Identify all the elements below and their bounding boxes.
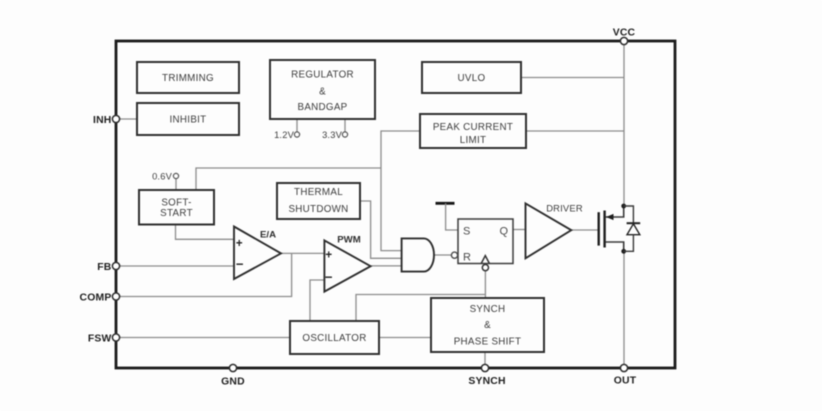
svg-text:1.2V: 1.2V (274, 130, 295, 140)
svg-text:+: + (325, 249, 332, 261)
wire UVLO to VCC rail (521, 77, 624, 79)
wire oscillator top to PWM - input (310, 280, 324, 321)
R input bubble (451, 252, 457, 258)
wire peak-current-limit right to VCC rail (526, 130, 624, 132)
op-amp E/A error amplifier (234, 227, 281, 280)
svg-text:−: − (325, 270, 333, 285)
svg-text:FSW: FSW (88, 333, 112, 344)
svg-text:R: R (463, 252, 471, 264)
soft-start block (139, 190, 214, 225)
node FB pin (97, 262, 119, 273)
wire FSW pin to oscillator (116, 337, 290, 339)
wire PWM output to AND gate input 3 (371, 265, 402, 267)
transistor Q1 power MOSFET (599, 204, 626, 254)
node 0.6V reference (152, 172, 179, 182)
node drain dot (621, 204, 626, 209)
wire soft-start bottom to E/A + input (176, 225, 235, 240)
SR latch U1 (451, 219, 513, 271)
wire peak-current-limit left to AND gate input 1 (381, 131, 420, 251)
wire thermal-shutdown right to AND gate input 2 (360, 201, 402, 258)
svg-text:SYNCH: SYNCH (468, 376, 505, 387)
svg-text:THERMAL: THERMAL (294, 187, 343, 198)
svg-text:START: START (160, 208, 193, 219)
wire 1.2V stub (296, 119, 298, 132)
node 1.2V output (274, 130, 300, 140)
svg-text:E/A: E/A (260, 230, 276, 241)
node OUT pin (614, 364, 637, 386)
wire Q output to driver (513, 229, 526, 231)
node FSW pin (88, 333, 120, 344)
svg-text:DRIVER: DRIVER (546, 202, 583, 213)
svg-text:SYNCH: SYNCH (470, 304, 506, 315)
node COMP pin (80, 292, 120, 303)
IC boundary box (116, 41, 675, 368)
svg-text:&: & (484, 320, 491, 331)
diode D1 body diode (624, 206, 641, 251)
wire driver output to MOSFET gate (571, 229, 598, 231)
driver buffer (526, 202, 583, 258)
svg-text:UVLO: UVLO (458, 73, 486, 84)
svg-text:OUT: OUT (614, 376, 637, 387)
UVLO block (422, 62, 521, 93)
trimming block (137, 62, 239, 93)
wire INH pin to INHIBIT (116, 118, 137, 120)
wire 3.3V stub (344, 119, 346, 132)
wire OUT vertical (623, 251, 625, 364)
oscillator block (290, 321, 379, 354)
svg-text:LIMIT: LIMIT (460, 135, 487, 146)
svg-text:&: & (319, 87, 326, 98)
wire COMP pin to E/A output node (116, 253, 292, 296)
node SYNCH pin (468, 364, 505, 387)
inhibit block (137, 103, 239, 135)
svg-text:REGULATOR: REGULATOR (291, 70, 354, 81)
svg-text:SOFT-: SOFT- (161, 198, 191, 209)
clock edge mark (481, 256, 489, 264)
wire oscillator to synch phase shift (379, 337, 431, 339)
svg-text:INHIBIT: INHIBIT (170, 115, 207, 126)
svg-text:GND: GND (221, 377, 245, 388)
svg-text:3.3V: 3.3V (322, 130, 343, 140)
wire soft-start top net (y=168) to AND vertical (196, 168, 381, 190)
svg-text:−: − (236, 256, 244, 271)
node GND pin (221, 364, 245, 387)
svg-text:INH: INH (93, 115, 112, 126)
wire S input tie-high with bar (436, 203, 459, 230)
node 3.3V output (322, 130, 348, 140)
AND gate (402, 238, 434, 271)
svg-text:COMP: COMP (80, 292, 112, 303)
op-amp PWM comparator (324, 235, 370, 292)
svg-text:PWM: PWM (337, 235, 360, 246)
svg-text:PEAK CURRENT: PEAK CURRENT (433, 122, 513, 133)
node INH pin (93, 115, 120, 126)
svg-text:FB: FB (97, 262, 112, 273)
svg-text:+: + (236, 238, 243, 250)
wire latch clock to oscillator top and synch box top (356, 271, 485, 321)
clock bubble (482, 265, 488, 271)
peak current limit block (420, 114, 526, 148)
svg-text:PHASE SHIFT: PHASE SHIFT (454, 337, 522, 348)
svg-text:Q: Q (500, 226, 509, 238)
svg-text:S: S (463, 226, 470, 238)
node source dot (621, 249, 626, 254)
regulator bandgap block (270, 60, 375, 119)
wire AND output to R input bubble (434, 254, 452, 256)
wire 0.6V stub (175, 179, 177, 190)
svg-text:BANDGAP: BANDGAP (297, 102, 347, 113)
wire VCC rail vertical (623, 45, 625, 206)
wire E/A output to PWM + input (281, 252, 324, 254)
wire synch phase shift bottom to SYNCH pin (484, 352, 486, 364)
svg-text:VCC: VCC (613, 28, 636, 39)
node VCC pin (613, 28, 636, 45)
thermal shutdown block (277, 183, 360, 219)
wire FB pin to E/A - input (116, 265, 234, 267)
svg-text:SHUTDOWN: SHUTDOWN (288, 204, 348, 215)
svg-text:OSCILLATOR: OSCILLATOR (302, 333, 366, 344)
svg-text:0.6V: 0.6V (152, 172, 173, 182)
synch phase shift block (431, 298, 544, 352)
svg-text:TRIMMING: TRIMMING (162, 73, 214, 84)
